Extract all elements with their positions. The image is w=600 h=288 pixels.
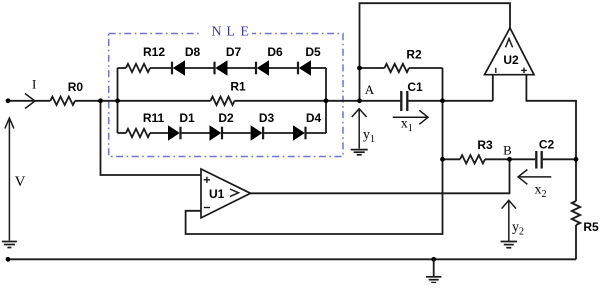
svg-text:R12: R12	[143, 45, 165, 59]
svg-text:D1: D1	[179, 111, 195, 125]
svg-text:R1: R1	[230, 80, 246, 94]
svg-text:D3: D3	[259, 111, 275, 125]
svg-text:D8: D8	[185, 45, 201, 59]
svg-text:D2: D2	[218, 111, 234, 125]
svg-text:A: A	[365, 82, 375, 97]
svg-text:C1: C1	[407, 80, 423, 94]
svg-text:R11: R11	[143, 111, 165, 125]
svg-text:R3: R3	[477, 138, 493, 152]
svg-text:B: B	[503, 142, 512, 157]
svg-text:U1: U1	[209, 187, 225, 201]
svg-text:R0: R0	[68, 80, 84, 94]
svg-text:R2: R2	[406, 48, 422, 62]
svg-text:D7: D7	[226, 45, 242, 59]
svg-text:N: N	[212, 24, 222, 39]
svg-text:D6: D6	[267, 45, 283, 59]
svg-text:V: V	[15, 174, 26, 190]
svg-text:R5: R5	[583, 220, 599, 234]
svg-text:D5: D5	[305, 45, 321, 59]
svg-text:I: I	[32, 77, 36, 92]
svg-text:E: E	[240, 24, 249, 39]
svg-text:C2: C2	[539, 138, 555, 152]
svg-text:U2: U2	[503, 53, 519, 67]
svg-text:D4: D4	[306, 111, 322, 125]
svg-text:L: L	[226, 24, 235, 39]
